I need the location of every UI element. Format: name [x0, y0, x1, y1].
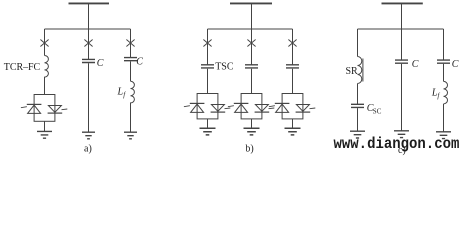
capacitor C a3 [124, 58, 137, 61]
breaker X a2 [84, 40, 92, 47]
node: distribution bus c [358, 28, 444, 30]
svg-text:C: C [412, 59, 419, 70]
svg-text:SR: SR [346, 66, 359, 77]
svg-text:a): a) [84, 143, 92, 154]
wire: b3 box to ground [292, 119, 294, 128]
breaker X b1 [203, 40, 211, 47]
thyristor pair (TSC valve 2) [228, 94, 274, 119]
wire: branch a1 upper [44, 29, 46, 56]
svg-text:f: f [437, 92, 440, 100]
wire: b2 to box [251, 69, 253, 94]
capacitor C a2 [82, 59, 95, 62]
breaker X a3 [126, 40, 134, 47]
ground a2 [82, 132, 95, 139]
ground c1 [350, 131, 365, 138]
wire: branch c1 upper [357, 29, 359, 57]
circuit a: supply busbar [69, 2, 110, 4]
svg-text:C: C [452, 59, 459, 70]
wire: branch b2 upper [251, 29, 253, 65]
circuit b: supply busbar [230, 2, 272, 4]
svg-text:SC: SC [373, 108, 382, 116]
core bar of SR [362, 59, 364, 82]
capacitor C c3 [437, 60, 450, 63]
ground a3 [124, 132, 137, 139]
inductor Lf a3 [131, 81, 135, 103]
svg-text:TCR–FC: TCR–FC [4, 62, 41, 73]
svg-text:f: f [123, 91, 126, 99]
capacitor TSC b1 [201, 65, 214, 68]
capacitor TSC b3 [286, 65, 299, 68]
wire: branch b1 upper [207, 29, 209, 65]
svg-text:b): b) [245, 144, 253, 155]
svg-text:C: C [97, 58, 104, 69]
inductor SR (saturated reactor) [358, 57, 362, 84]
ground c2 [394, 131, 409, 138]
wire: c3 middle [443, 64, 445, 82]
node: distribution bus a [45, 28, 131, 30]
wire: feeder a [88, 4, 90, 29]
breaker X b2 [247, 40, 255, 47]
breaker X a1 [40, 40, 48, 47]
thyristor pair (TSC valve 1) [184, 94, 230, 119]
wire: a3 lower [130, 103, 132, 133]
thyristor pair U1 (TCR valve) [21, 95, 67, 122]
svg-text:www.diangon.com: www.diangon.com [334, 134, 459, 153]
wire: branch c3 upper [443, 29, 445, 60]
svg-text:C: C [136, 56, 143, 67]
wire: c2 lower [401, 64, 403, 131]
capacitor Csc [351, 104, 364, 107]
thyristor pair (TSC valve 3) [269, 94, 315, 119]
wire: a1 box to ground [44, 121, 46, 131]
wire: feeder c [401, 4, 403, 29]
svg-text:TSC: TSC [215, 62, 234, 73]
wire: branch c2 upper [401, 29, 403, 60]
wire: b1 to box [207, 69, 209, 94]
wire: c1 lower [357, 108, 359, 131]
node: distribution bus b [208, 28, 293, 30]
circuit c: supply busbar [382, 2, 423, 4]
wire: a1 to thyristor box [44, 77, 46, 95]
wire: b1 box to ground [207, 119, 209, 128]
capacitor C c2 [395, 60, 408, 63]
ground b3 [285, 128, 301, 135]
ground b1 [200, 128, 216, 135]
ground a1 [37, 131, 52, 138]
wire: b3 to box [292, 69, 294, 94]
wire: c3 lower [443, 104, 445, 132]
wire: feeder b [251, 4, 253, 29]
wire: b2 box to ground [251, 119, 253, 128]
wire: branch a2 upper [88, 29, 90, 59]
wire: branch b3 upper [292, 29, 294, 65]
wire: c1 middle [357, 84, 359, 105]
inductor Lf c3 [444, 81, 448, 104]
ground c3 [436, 132, 451, 139]
breaker X b3 [288, 40, 296, 47]
wire: a2 lower [88, 63, 90, 132]
ground b2 [244, 128, 260, 135]
capacitor TSC b2 [245, 65, 258, 68]
inductor TCR reactor [45, 56, 49, 78]
wire: branch a3 upper [130, 29, 132, 57]
wire: a3 middle [130, 62, 132, 82]
